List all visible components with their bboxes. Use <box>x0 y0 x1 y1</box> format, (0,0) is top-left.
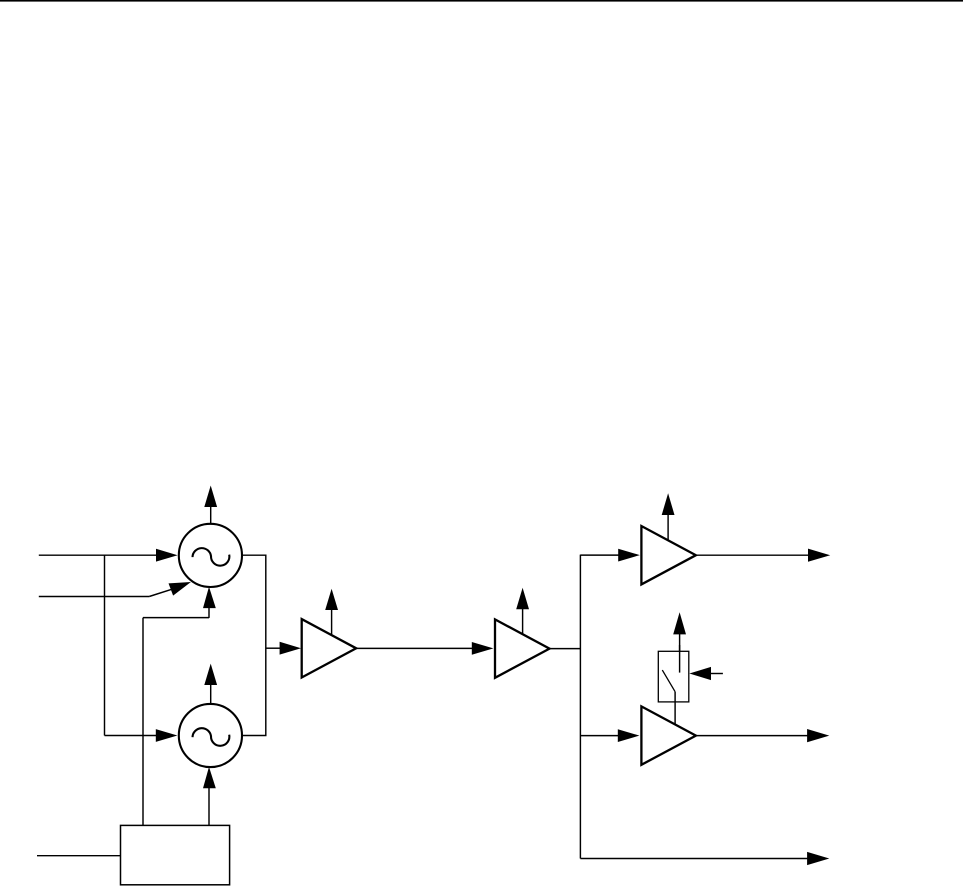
amplifier A4 <box>641 706 696 764</box>
wire A2 output to bus <box>550 648 581 650</box>
supply arrow A3 <box>662 493 675 540</box>
wire A3 output <box>696 549 830 562</box>
wire input C to box <box>37 855 121 857</box>
amplifier A3 <box>641 526 696 584</box>
amplifier A1 <box>302 619 357 677</box>
wire OSC2 output <box>242 735 267 737</box>
wire bus to A4 input <box>580 729 639 742</box>
oscillator OSC2 <box>179 704 242 767</box>
supply arrow OSC2 <box>204 664 217 705</box>
supply arrow A1 <box>325 589 338 636</box>
wire bus to A3 input <box>580 549 639 562</box>
wire bus to A1 input <box>266 642 301 655</box>
supply arrow A2 <box>516 588 529 635</box>
wire A1 to A2 <box>356 642 493 655</box>
control arrow into OSC1 bottom <box>143 587 216 618</box>
wire bottom output <box>580 852 829 865</box>
oscillator OSC1 <box>179 524 242 587</box>
wire control riser from box <box>142 618 144 826</box>
control arrow into OSC2 bottom <box>203 767 216 826</box>
supply arrow via S1 <box>673 612 686 651</box>
amplifier A2 <box>495 619 550 677</box>
switch S1 contact and lever <box>662 645 679 692</box>
control arrow into S1 <box>689 667 723 680</box>
bus oscillator outputs <box>265 555 267 736</box>
wire OSC1 output <box>242 554 267 556</box>
reference box <box>121 825 230 884</box>
wire input B to OSC1 (diagonal) <box>39 582 191 597</box>
supply arrow OSC1 <box>204 486 217 525</box>
wire to OSC2 input <box>105 729 178 742</box>
wire A4 output <box>696 729 829 742</box>
switch S1 box <box>658 651 689 702</box>
wire branch to OSC2 input (vertical) <box>104 555 106 735</box>
wire input A to OSC1 <box>39 549 178 562</box>
bus distribution vertical <box>579 555 581 859</box>
wire S1 to A4 <box>674 692 676 725</box>
